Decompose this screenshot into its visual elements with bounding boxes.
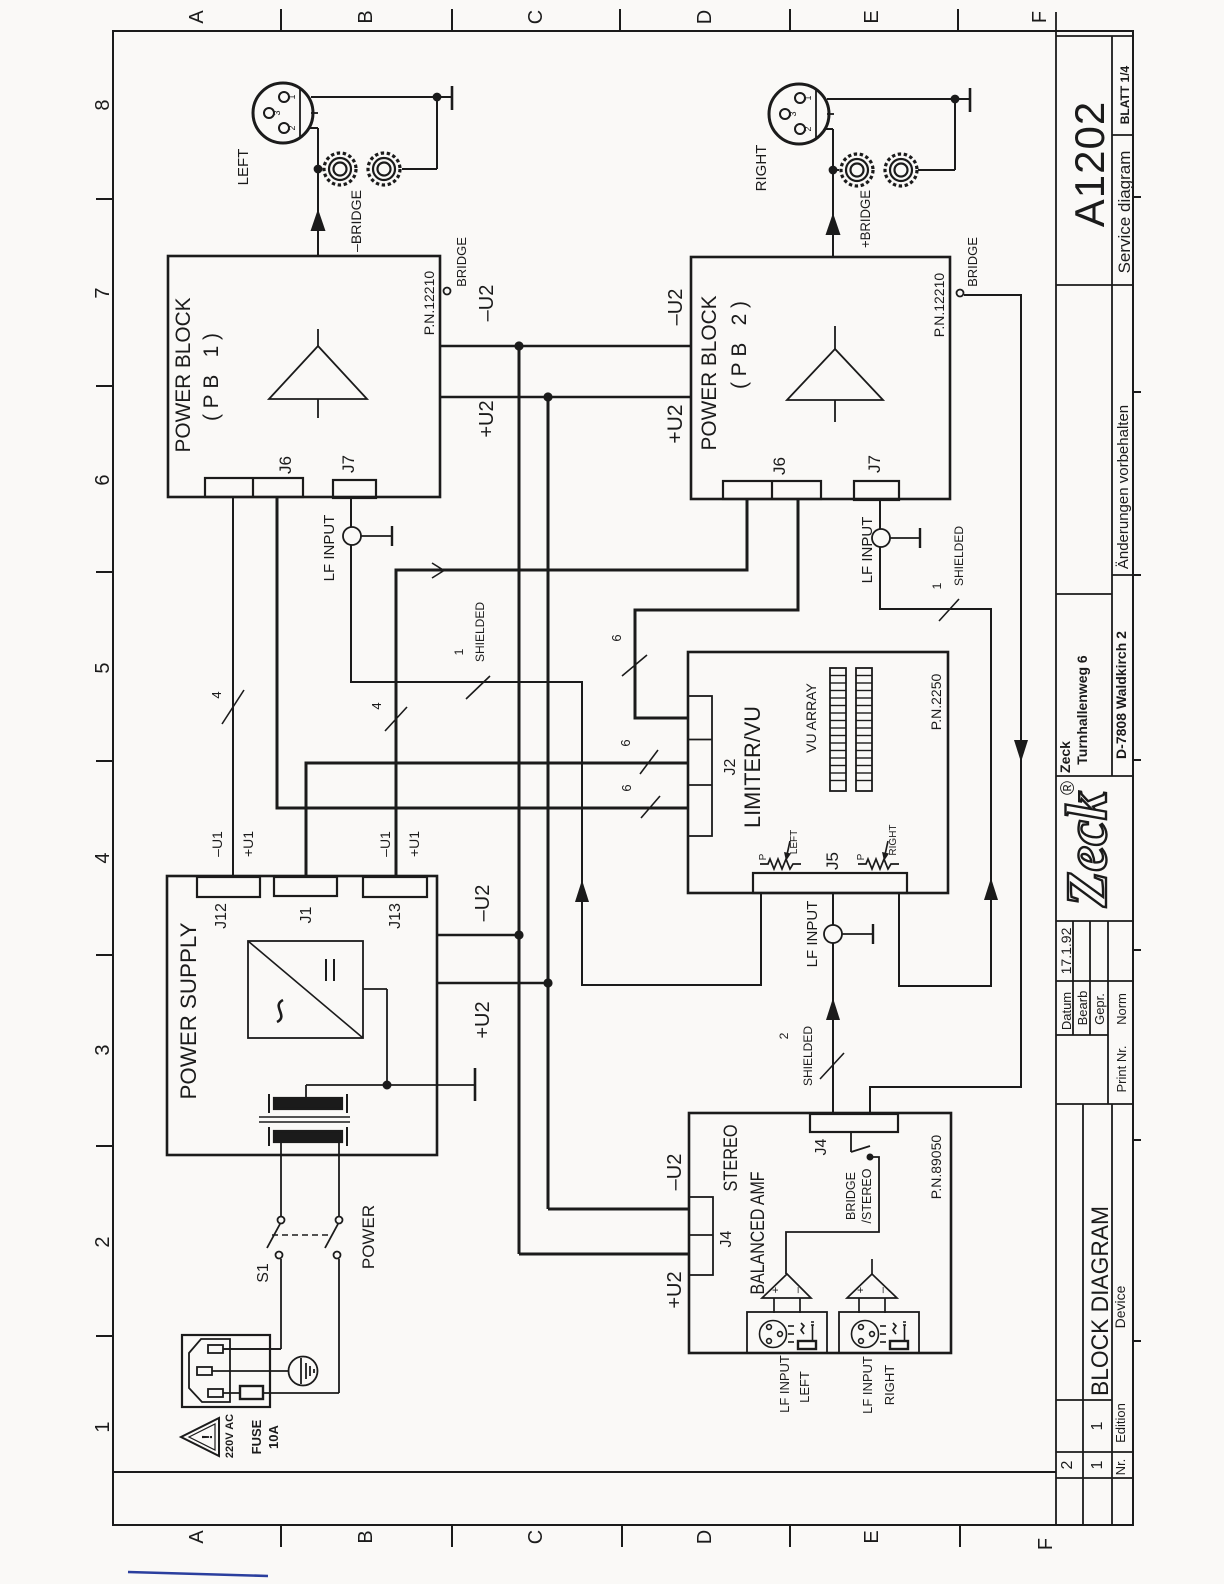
svg-text:2: 2 bbox=[1059, 1460, 1076, 1469]
svg-text:P: P bbox=[758, 853, 769, 860]
svg-text:+BRIDGE: +BRIDGE bbox=[857, 190, 873, 248]
svg-text:/STEREO: /STEREO bbox=[860, 1168, 874, 1223]
svg-text:3: 3 bbox=[788, 111, 798, 116]
svg-text:P: P bbox=[856, 853, 867, 860]
svg-text:A1202: A1202 bbox=[1066, 101, 1113, 227]
svg-text:P.N.12210: P.N.12210 bbox=[421, 271, 437, 336]
svg-text:C: C bbox=[525, 1530, 547, 1544]
svg-text:Änderungen vorbehalten: Änderungen vorbehalten bbox=[1115, 405, 1132, 569]
svg-text:LF INPUT: LF INPUT bbox=[321, 515, 338, 582]
svg-text:–U1: –U1 bbox=[377, 831, 393, 857]
svg-text:J4: J4 bbox=[813, 1138, 830, 1155]
svg-text:D: D bbox=[694, 10, 716, 24]
svg-text:Bearb: Bearb bbox=[1075, 991, 1090, 1026]
svg-text:D-7808 Waldkirch 2: D-7808 Waldkirch 2 bbox=[1113, 631, 1129, 759]
svg-text:6: 6 bbox=[92, 474, 114, 485]
svg-text:RIGHT: RIGHT bbox=[753, 145, 770, 192]
svg-text:J7: J7 bbox=[339, 455, 358, 473]
svg-text:J1: J1 bbox=[298, 906, 315, 923]
svg-text:J6: J6 bbox=[770, 457, 789, 475]
svg-text:(PB 1): (PB 1) bbox=[200, 333, 223, 421]
svg-text:+: + bbox=[770, 1287, 782, 1293]
svg-text:(PB 2): (PB 2) bbox=[728, 301, 751, 389]
svg-text:RIGHT: RIGHT bbox=[888, 824, 899, 855]
svg-text:10A: 10A bbox=[266, 1424, 281, 1448]
svg-text:BLATT 1/4: BLATT 1/4 bbox=[1118, 65, 1132, 124]
svg-text:Zeck: Zeck bbox=[1057, 741, 1073, 773]
svg-text:Device: Device bbox=[1112, 1285, 1128, 1328]
svg-text:1: 1 bbox=[287, 94, 297, 99]
svg-text:LEFT: LEFT bbox=[235, 149, 252, 186]
svg-text:+: + bbox=[855, 1287, 867, 1293]
svg-text:J12: J12 bbox=[213, 903, 230, 929]
svg-text:–U2: –U2 bbox=[472, 885, 494, 922]
svg-text:2: 2 bbox=[777, 1032, 791, 1039]
svg-text:5: 5 bbox=[92, 662, 114, 673]
svg-text:BLOCK DIAGRAM: BLOCK DIAGRAM bbox=[1087, 1206, 1114, 1396]
svg-text:A: A bbox=[186, 1530, 208, 1544]
svg-text:P.N.2250: P.N.2250 bbox=[928, 674, 944, 731]
svg-text:–BRIDGE: –BRIDGE bbox=[348, 190, 364, 252]
svg-text:J4: J4 bbox=[718, 1230, 735, 1247]
svg-text:LF INPUT: LF INPUT bbox=[777, 1355, 792, 1413]
svg-text:STEREO: STEREO bbox=[721, 1125, 742, 1192]
svg-text:+U1: +U1 bbox=[406, 831, 422, 857]
svg-text:LEFT: LEFT bbox=[789, 830, 800, 854]
svg-text:1: 1 bbox=[92, 1421, 114, 1432]
svg-text:POWER SUPPLY: POWER SUPPLY bbox=[176, 922, 201, 1099]
svg-text:+U2: +U2 bbox=[472, 1001, 494, 1038]
svg-text:220V AC: 220V AC bbox=[224, 1414, 236, 1458]
svg-text:J2: J2 bbox=[722, 758, 739, 775]
svg-text:J6: J6 bbox=[276, 456, 295, 474]
svg-text:J13: J13 bbox=[387, 903, 404, 929]
svg-text:B: B bbox=[355, 10, 377, 23]
svg-text:4: 4 bbox=[369, 702, 384, 709]
svg-text:POWER BLOCK: POWER BLOCK bbox=[698, 296, 721, 451]
svg-text:®: ® bbox=[1058, 781, 1079, 795]
svg-text:–U2: –U2 bbox=[664, 1154, 686, 1191]
svg-text:Edition: Edition bbox=[1113, 1403, 1128, 1443]
svg-text:J5: J5 bbox=[823, 852, 842, 870]
svg-text:POWER: POWER bbox=[359, 1205, 378, 1269]
svg-text:C: C bbox=[525, 10, 547, 24]
svg-text:D: D bbox=[694, 1530, 716, 1544]
svg-text:E: E bbox=[861, 1530, 883, 1543]
svg-text:E: E bbox=[861, 10, 883, 23]
svg-text:S1: S1 bbox=[255, 1263, 272, 1283]
svg-text:Turnhallenweg 6: Turnhallenweg 6 bbox=[1074, 655, 1090, 765]
svg-text:Print Nr.: Print Nr. bbox=[1114, 1046, 1129, 1093]
svg-text:1: 1 bbox=[1089, 1460, 1106, 1469]
svg-text:LIMITER/VU: LIMITER/VU bbox=[740, 706, 765, 828]
svg-text:SHIELDED: SHIELDED bbox=[473, 602, 487, 662]
svg-text:+U2: +U2 bbox=[664, 404, 687, 443]
svg-text:P.N.12210: P.N.12210 bbox=[931, 273, 947, 338]
svg-text:–: – bbox=[792, 1286, 804, 1293]
svg-text:3: 3 bbox=[92, 1044, 114, 1055]
svg-text:–U2: –U2 bbox=[476, 285, 498, 322]
svg-text:BRIDGE: BRIDGE bbox=[454, 237, 469, 287]
svg-text:A: A bbox=[186, 10, 208, 24]
svg-text:1: 1 bbox=[930, 582, 944, 589]
svg-text:!: ! bbox=[199, 1435, 216, 1440]
svg-text:FUSE: FUSE bbox=[249, 1419, 264, 1454]
svg-text:RIGHT: RIGHT bbox=[882, 1365, 897, 1406]
svg-text:VU ARRAY: VU ARRAY bbox=[803, 682, 819, 752]
svg-text:Zeck: Zeck bbox=[1054, 791, 1119, 908]
svg-text:17.1.92: 17.1.92 bbox=[1058, 927, 1074, 974]
svg-text:Service diagram: Service diagram bbox=[1115, 151, 1134, 274]
svg-text:Gepr.: Gepr. bbox=[1092, 993, 1107, 1025]
svg-text:B: B bbox=[355, 1530, 377, 1543]
svg-text:1: 1 bbox=[452, 648, 466, 655]
svg-text:LF INPUT: LF INPUT bbox=[860, 1356, 875, 1414]
svg-text:+U1: +U1 bbox=[240, 831, 256, 857]
svg-text:6: 6 bbox=[609, 634, 624, 641]
svg-text:POWER BLOCK: POWER BLOCK bbox=[172, 298, 195, 453]
svg-text:SHIELDED: SHIELDED bbox=[952, 526, 966, 586]
svg-text:J7: J7 bbox=[865, 455, 884, 473]
svg-text:LF INPUT: LF INPUT bbox=[859, 517, 876, 584]
svg-text:6: 6 bbox=[619, 784, 634, 791]
svg-text:SHIELDED: SHIELDED bbox=[801, 1026, 815, 1086]
svg-text:+U2: +U2 bbox=[664, 1271, 686, 1308]
svg-text:Norm: Norm bbox=[1114, 993, 1129, 1025]
svg-text:+U2: +U2 bbox=[476, 400, 498, 437]
svg-text:4: 4 bbox=[92, 852, 114, 863]
svg-text:–U2: –U2 bbox=[665, 289, 687, 326]
svg-text:LEFT: LEFT bbox=[797, 1371, 812, 1403]
svg-text:3: 3 bbox=[272, 110, 282, 115]
svg-text:1: 1 bbox=[803, 95, 813, 100]
svg-text:Datum: Datum bbox=[1059, 992, 1074, 1030]
svg-text:2: 2 bbox=[803, 126, 813, 131]
svg-text:6: 6 bbox=[618, 739, 633, 746]
svg-text:LF INPUT: LF INPUT bbox=[804, 901, 821, 968]
svg-text:BALANCED AMF: BALANCED AMF bbox=[748, 1172, 769, 1295]
svg-text:F: F bbox=[1029, 11, 1051, 23]
svg-text:Nr.: Nr. bbox=[1113, 1459, 1128, 1476]
svg-text:BRIDGE: BRIDGE bbox=[965, 237, 980, 287]
svg-text:2: 2 bbox=[287, 125, 297, 130]
svg-text:1: 1 bbox=[1089, 1421, 1106, 1430]
svg-text:4: 4 bbox=[209, 691, 224, 698]
svg-text:7: 7 bbox=[92, 287, 114, 298]
svg-text:F: F bbox=[1035, 1538, 1057, 1550]
svg-text:P.N.89050: P.N.89050 bbox=[928, 1135, 944, 1200]
svg-text:2: 2 bbox=[92, 1236, 114, 1247]
svg-text:8: 8 bbox=[92, 99, 114, 110]
svg-text:–: – bbox=[877, 1286, 889, 1293]
svg-text:BRIDGE: BRIDGE bbox=[844, 1172, 858, 1220]
svg-text:–U1: –U1 bbox=[209, 831, 225, 857]
